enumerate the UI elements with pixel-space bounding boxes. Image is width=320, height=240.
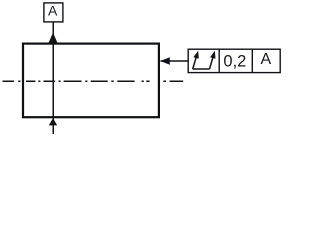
frame divider 1: [218, 49, 220, 72]
total runout arrow 2 shaft: [210, 55, 214, 69]
leader arrowhead at part edge: [160, 57, 170, 65]
frame divider 2: [251, 49, 253, 72]
datum leader vertical line: [52, 22, 54, 135]
svg-text:A: A: [48, 3, 58, 19]
part outline rectangle: [23, 44, 159, 118]
leader line to feature control frame: [161, 60, 189, 62]
datum feature box A: [44, 3, 63, 22]
svg-text:0,2: 0,2: [223, 53, 246, 71]
arrowhead bottom (filled): [49, 118, 57, 125]
centerline (dash-dot axis): [3, 80, 184, 82]
svg-text:A: A: [260, 51, 271, 68]
total runout arrow 1 head: [193, 51, 198, 59]
total runout arrow 2 head: [210, 51, 215, 59]
total runout arrow 1 shaft: [193, 55, 197, 69]
feature control frame border: [188, 49, 280, 72]
datum triangle top (filled): [49, 33, 58, 43]
total runout symbol base line: [193, 68, 210, 70]
